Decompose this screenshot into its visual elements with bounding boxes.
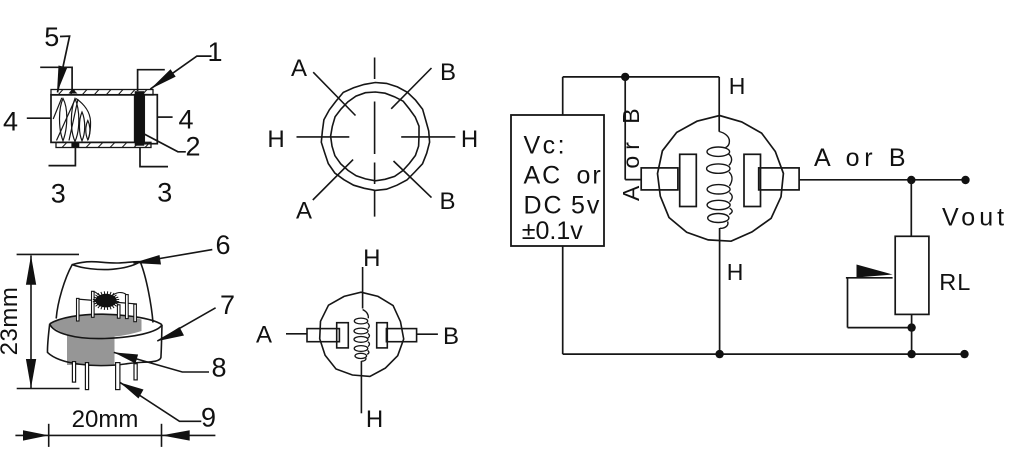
resistor RL bbox=[895, 236, 929, 314]
base top ellipse gray fill bbox=[50, 314, 142, 338]
pin B top-right lead bbox=[391, 68, 431, 109]
lead wire A bbox=[286, 333, 307, 335]
wiper wire to RL bottom bbox=[848, 327, 912, 329]
label 3 right bbox=[140, 148, 172, 208]
svg-text:A or B: A or B bbox=[618, 102, 644, 201]
bracket for label 1 bbox=[138, 70, 165, 91]
wiper arrow bbox=[857, 265, 893, 278]
pin H left lead bbox=[297, 136, 350, 138]
label 1 bbox=[150, 37, 222, 89]
pin A top-left lead bbox=[313, 72, 355, 115]
svg-text:3: 3 bbox=[51, 179, 66, 209]
element support rail bbox=[77, 299, 138, 304]
svg-text:8: 8 bbox=[211, 353, 226, 383]
wire top rail bbox=[563, 76, 720, 78]
svg-text:4: 4 bbox=[178, 105, 193, 135]
node RL bottom junction bbox=[907, 323, 915, 331]
label 3 left bbox=[49, 147, 76, 208]
20mm dimension bbox=[15, 406, 215, 447]
svg-text:B: B bbox=[440, 59, 456, 86]
label 6 bbox=[133, 230, 230, 265]
node ground terminal bbox=[960, 350, 968, 358]
svg-text:DC: DC bbox=[524, 192, 564, 220]
node sensor H ground junction bbox=[715, 350, 723, 358]
sensor body circle bbox=[320, 292, 404, 376]
label 4 left bbox=[3, 107, 51, 137]
svg-text:H: H bbox=[267, 126, 284, 153]
pin H right lead bbox=[401, 136, 455, 138]
svg-text:20mm: 20mm bbox=[72, 406, 139, 433]
FIGURE 5: test circuit bbox=[511, 73, 1008, 359]
element lead wires bbox=[93, 292, 127, 296]
svg-text:H: H bbox=[366, 406, 383, 433]
svg-text:7: 7 bbox=[220, 290, 235, 320]
electrode right bbox=[377, 323, 388, 348]
svg-text:9: 9 bbox=[201, 403, 216, 433]
svg-text:Vc:: Vc: bbox=[524, 132, 568, 160]
FIGURE 4: sensor schematic symbol bbox=[256, 245, 459, 433]
svg-text:5v: 5v bbox=[571, 192, 601, 220]
svg-text:A: A bbox=[256, 322, 272, 349]
svg-text:RL: RL bbox=[939, 269, 971, 295]
sensor lead frame right rect bbox=[759, 168, 799, 190]
sensing element blob bbox=[93, 291, 119, 310]
lead wire B bbox=[417, 333, 438, 335]
heater coil inside tube bbox=[53, 98, 90, 142]
label 8 bbox=[114, 352, 227, 382]
anti-explosion mesh dome bbox=[56, 262, 153, 323]
FIGURE 2: top view pin layout bbox=[267, 55, 478, 225]
svg-text:5: 5 bbox=[44, 22, 59, 52]
sensor top lead H bbox=[718, 77, 720, 132]
sensor bottom lead H bbox=[719, 228, 721, 354]
tube top hatched band bbox=[51, 90, 153, 96]
svg-text:B: B bbox=[443, 323, 459, 350]
svg-text:4: 4 bbox=[3, 107, 18, 137]
node output terminal bbox=[961, 176, 969, 184]
svg-text:A: A bbox=[291, 55, 307, 82]
heater coil bbox=[354, 310, 370, 362]
package pins bbox=[72, 362, 137, 390]
label 4 right bbox=[157, 105, 193, 135]
svg-text:1: 1 bbox=[207, 37, 222, 67]
vertical center line (dashed) bbox=[374, 58, 376, 217]
wiper underline bbox=[846, 277, 893, 279]
svg-text:2: 2 bbox=[185, 132, 200, 162]
pin B bottom-right lead bbox=[394, 161, 432, 198]
FIGURE 1: sensor tube cross-section bbox=[3, 22, 223, 209]
power source box Vc bbox=[511, 115, 604, 246]
label 7 bbox=[157, 290, 235, 341]
svg-text:±0.1v: ±0.1v bbox=[522, 217, 583, 245]
heater pad on bottom band bbox=[71, 143, 79, 147]
wire to RL bbox=[910, 180, 912, 236]
bracket for label 5 bbox=[40, 67, 72, 91]
23mm dimension bbox=[0, 254, 80, 388]
node output junction bbox=[907, 176, 915, 184]
sensor electrode right bbox=[744, 154, 761, 206]
base front gray fill bbox=[67, 330, 115, 365]
wire stub to sensor lead A bbox=[625, 179, 641, 181]
electrode left bbox=[337, 323, 349, 348]
svg-text:6: 6 bbox=[215, 230, 230, 260]
FIGURE 3: package drawing with dimensions bbox=[0, 230, 235, 447]
wedge at bracket 5 bbox=[69, 89, 78, 94]
svg-text:A: A bbox=[296, 198, 312, 225]
tube right end cap bbox=[144, 95, 157, 144]
lead frame right rect bbox=[386, 329, 416, 342]
tube body (ceramic tube) bbox=[51, 95, 135, 143]
svg-text:H: H bbox=[727, 259, 744, 285]
lead wire H top bbox=[362, 267, 364, 309]
svg-text:23mm: 23mm bbox=[0, 287, 23, 356]
label 9 bbox=[120, 383, 216, 433]
svg-text:B: B bbox=[439, 188, 455, 215]
svg-text:A or B: A or B bbox=[814, 144, 910, 172]
wire A-or-B vertical bbox=[624, 77, 626, 180]
svg-text:H: H bbox=[363, 245, 380, 272]
svg-text:or: or bbox=[577, 162, 603, 190]
inner shell circle bbox=[331, 92, 419, 181]
sensor heater coil bbox=[707, 132, 733, 229]
electrode black bar bbox=[135, 91, 145, 146]
lead frame left rect bbox=[307, 329, 339, 342]
base rim outline bbox=[47, 314, 162, 365]
wire box top lead bbox=[562, 77, 564, 115]
lead wire H bottom bbox=[360, 361, 362, 413]
label 5 bbox=[44, 22, 69, 93]
label 2 bbox=[144, 132, 200, 162]
node RL ground junction bbox=[907, 350, 915, 358]
wire RL bottom lead bbox=[911, 314, 913, 354]
sensor lead frame left rect bbox=[641, 168, 678, 190]
wiper wire down bbox=[847, 278, 849, 328]
outer shell circle bbox=[321, 83, 429, 191]
svg-text:AC: AC bbox=[524, 162, 563, 190]
svg-text:Vout: Vout bbox=[942, 204, 1008, 232]
tube bottom hatched band bbox=[56, 142, 151, 147]
svg-text:3: 3 bbox=[157, 178, 172, 208]
wire sensor output to right bbox=[799, 179, 965, 181]
support posts inside dome bbox=[77, 291, 137, 321]
wire ground rail bbox=[563, 353, 965, 355]
pin A bottom-left lead bbox=[313, 160, 353, 200]
node junction top bbox=[621, 73, 629, 81]
svg-text:H: H bbox=[729, 73, 746, 99]
sensor body circle bbox=[658, 116, 784, 242]
sensor electrode left bbox=[680, 154, 697, 206]
wire box bottom lead bbox=[562, 246, 564, 354]
svg-text:H: H bbox=[461, 126, 478, 153]
